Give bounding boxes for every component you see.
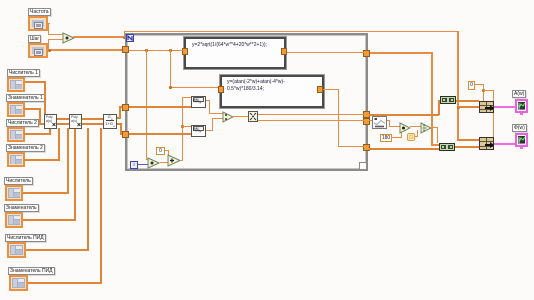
wire re out to tunnel [258, 114, 364, 115]
wire amplitude tunnel to right column [370, 52, 432, 54]
loop count terminal N [126, 34, 134, 42]
wire Знаменатель 2 riser [24, 159, 60, 161]
wire PtByPt out to multiply [387, 120, 390, 121]
wire pi to divide [415, 136, 418, 137]
wire multiply to divide right [410, 126, 421, 127]
junction w drop [145, 49, 148, 52]
divide node right [420, 122, 432, 134]
right tunnel imag [363, 118, 370, 125]
wire bundle 1 to graph [494, 106, 515, 108]
wire divide right to build array 2 [430, 127, 438, 128]
multiply i x Шаг [147, 157, 160, 169]
array control Числитель 2 [7, 127, 25, 142]
loop resize corner [359, 162, 367, 170]
array control Знаменатель [5, 212, 23, 228]
wire bus upper numerator [44, 118, 104, 120]
bundle node 1 [479, 101, 494, 113]
wire i to multiply [138, 164, 148, 165]
junction Шаг branch [48, 49, 51, 52]
wire Числитель 2 riser [24, 133, 51, 135]
wire G out lower to tunnel [117, 123, 121, 125]
numeric control Частота [28, 16, 48, 31]
polynomial evaluate node PH1 [191, 96, 206, 108]
wire PH1 out to divide [206, 100, 210, 101]
right tunnel amplitude [363, 50, 370, 57]
closed loop node G/(1+G) [103, 114, 117, 129]
array control Знаменатель 1 [7, 102, 25, 117]
wire G out upper to tunnel [117, 117, 121, 119]
right tunnel real [363, 111, 370, 118]
formula node 2 output tunnel y [317, 86, 323, 93]
wire im out to tunnel [258, 120, 364, 121]
formula node 2 text [227, 79, 285, 92]
control label Знаменатель 2 [6, 144, 45, 152]
wire divide to complex node [233, 116, 248, 117]
wire Числитель 1 to Poly1 [25, 81, 46, 83]
bundle node 2 [479, 137, 494, 150]
junction w to PH2 [181, 125, 184, 128]
control label Числитель 2 [6, 119, 39, 127]
control label Числитель ПИД [5, 234, 46, 242]
polynomial multiply node P2 [69, 114, 82, 129]
control label Числитель [4, 177, 33, 185]
wire 180 to multiply [391, 137, 402, 138]
wire 0 to bundles [475, 84, 484, 85]
wire real tunnel to build array 1 [369, 114, 439, 116]
formula node 1 text [192, 42, 267, 49]
rounded constant pi [407, 133, 415, 141]
junction frequency branch [457, 106, 460, 109]
wire Знаменатель 1 to bus [24, 108, 41, 110]
wire build array 2 to bundle 2 [455, 146, 479, 148]
wire 0 to add [165, 150, 169, 151]
formula node 1 output tunnel y [281, 48, 287, 55]
wire numerator tunnel to PH1 [129, 106, 191, 108]
array control Числитель 1 [7, 77, 25, 92]
control label Частота [28, 8, 51, 16]
control label Числитель 1 [7, 69, 40, 77]
junction to top wire [123, 36, 126, 39]
formula node 2 [220, 75, 324, 108]
wire FN1 out to tunnel [287, 52, 364, 53]
polynomial multiply node P1 [44, 114, 57, 129]
indicator label А(w) [512, 90, 526, 98]
junction on FN2 wire [169, 86, 172, 89]
junction FN2 branch [169, 49, 172, 52]
wire bundle 2 to graph [494, 143, 515, 145]
polynomial evaluate node PH2 [191, 125, 206, 137]
wire Числитель riser [23, 192, 69, 194]
wire over loop to right column [124, 31, 125, 37]
build array node 1 [440, 96, 456, 104]
array control Числитель ПИД [7, 242, 26, 258]
wire frequency to bundle 1 [458, 106, 479, 108]
formula node 1 [184, 37, 286, 69]
constant 0 in loop [156, 147, 165, 155]
mean PtByPt node [372, 116, 387, 129]
array control Числитель [5, 185, 23, 201]
wire Числитель ПИД riser [26, 249, 89, 251]
wire Знаменатель ПИД riser [28, 282, 102, 284]
wire Шаг to loop tunnel [47, 49, 123, 51]
right tunnel phase [363, 144, 370, 151]
formula node 2 input tunnel w [218, 86, 224, 93]
XY graph indicator А(w) [515, 99, 528, 113]
wire phase tunnel to build array 2 [369, 148, 439, 150]
wire multiply to add [160, 162, 169, 163]
control label Знаменатель 1 [6, 94, 45, 102]
control label Знаменатель [4, 204, 39, 212]
constant 0 initial [468, 81, 475, 90]
formula node 1 input tunnel w [182, 48, 188, 55]
wire PH2 out to divide [206, 130, 213, 131]
add node [167, 154, 181, 167]
terminal stub Ф(w) [520, 147, 523, 149]
control label Знаменатель ПИД [8, 267, 55, 275]
constant 180 [380, 134, 392, 142]
XY graph indicator Ф(w) [515, 133, 528, 147]
wire Шаг tunnel to formula node 1 [129, 50, 184, 51]
multiply node right [399, 122, 411, 134]
wire w riser [181, 160, 183, 161]
wire multiply to N terminal [73, 36, 123, 38]
complex to re/im node [248, 111, 258, 122]
wire bus lower denominator [39, 123, 104, 125]
wire build array 1 to bundle 1 [456, 100, 479, 102]
control label Шаг [28, 35, 41, 43]
wire frequency to bundle 2 [457, 139, 479, 141]
terminal stub А(w) [520, 113, 523, 115]
wire denominator tunnel to PH2 [129, 133, 191, 135]
left tunnel numerator array [122, 104, 129, 111]
wire imag tunnel to PtByPt [369, 120, 372, 121]
numeric control Шаг [28, 43, 48, 58]
wire Частота to multiply [47, 23, 50, 24]
left tunnel denominator array [122, 131, 129, 138]
divide node [222, 111, 234, 123]
indicator label Ф(w) [512, 124, 527, 132]
wire Знаменатель riser [23, 219, 76, 221]
for loop structure [125, 33, 368, 171]
iteration terminal i [130, 161, 138, 169]
array control Знаменатель ПИД [9, 275, 28, 291]
wire FN2 out down to tunnel [323, 89, 338, 90]
multiply function (Частота x Шаг) [62, 32, 75, 44]
left tunnel Шаг [122, 46, 129, 53]
build array node 2 [439, 143, 455, 151]
array control Знаменатель 2 [7, 152, 25, 167]
wire to formula node 2 input [170, 87, 218, 88]
